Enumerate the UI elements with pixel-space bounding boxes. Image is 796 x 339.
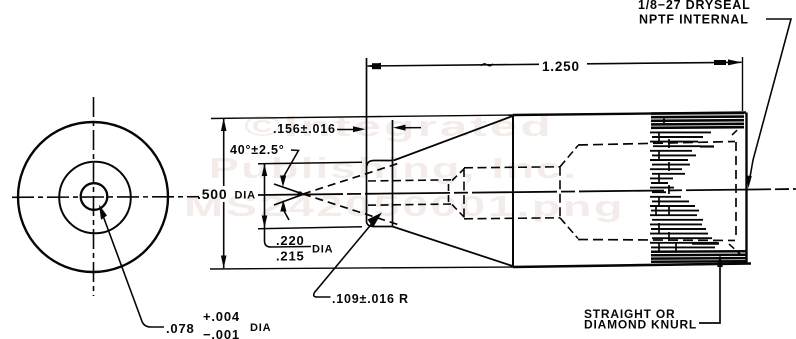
spray angle solid extension lower-left (274, 194, 304, 205)
.500 bottom arrow (221, 256, 227, 269)
.109 R leader (314, 221, 374, 297)
break squiggle (481, 64, 493, 66)
side view: right face (745, 113, 747, 265)
bore bottom hidden line (578, 240, 735, 241)
.220 bottom extension line (258, 227, 362, 229)
bore mouth chamfer top (732, 127, 741, 136)
cone bottom edge (393, 227, 515, 267)
svg-text:DIA: DIA (235, 190, 256, 202)
side view: bottom edge of body (513, 264, 751, 268)
knurl hatch band (650, 113, 746, 262)
chamber top hidden line (464, 167, 560, 168)
svg-text:−.001: −.001 (203, 327, 240, 339)
bore right end (735, 142, 737, 240)
svg-text:40°±2.5°: 40°±2.5° (230, 143, 285, 157)
cone top edge (394, 116, 515, 161)
side view: shoulder face of cylinder (512, 115, 514, 267)
NPTF arrowhead (746, 176, 752, 189)
nozzle tip top edge with corner radius (367, 161, 393, 167)
front view: middle circle (59, 162, 131, 234)
svg-text:1/8−27 DRYSEAL: 1/8−27 DRYSEAL (638, 0, 751, 12)
spray angle solid extension upper-left (274, 184, 304, 194)
40 deg arrow upper (points down) (280, 176, 286, 188)
.220 top extension line (258, 162, 362, 164)
watermark line 2 (209, 153, 578, 185)
svg-text:1.250: 1.250 (542, 59, 580, 74)
watermark line 3 (184, 191, 625, 223)
1.250 dimension line right part (587, 62, 742, 64)
1.250 left arrow (367, 63, 381, 69)
spray cone upper dashed ray (303, 164, 398, 195)
hidden orifice channel top (368, 180, 452, 181)
.500 DIA dimension line bottom segment (223, 202, 225, 268)
side view: top extension line (.500) (211, 115, 513, 119)
svg-text:DIA: DIA (250, 322, 271, 334)
front view: horizontal centerline (12, 196, 199, 199)
leader for .078 DIA orifice (102, 213, 164, 327)
svg-text:.215: .215 (276, 249, 305, 264)
knurl leader (699, 257, 720, 323)
1.250 right arrow (728, 59, 742, 65)
nozzle tip right face + .156 extension (392, 120, 394, 227)
.500 DIA dimension line top segment (223, 118, 225, 186)
chamfer to bore bottom (560, 218, 578, 239)
.156 right-pointing arrow at left ext line (353, 126, 366, 132)
vertex blob (298, 191, 303, 196)
1.250 dimension line left part (368, 64, 540, 66)
side view: top edge of body (513, 113, 746, 116)
svg-text:DIAMOND KNURL: DIAMOND KNURL (584, 318, 697, 332)
1.250 right extension line (742, 57, 744, 111)
watermark line 1 (244, 110, 554, 142)
40 deg arrow lower (points up) (280, 200, 286, 212)
chamber front face (463, 168, 465, 219)
chamber bottom hidden line (464, 218, 560, 219)
spray cone lower dashed ray (303, 194, 398, 225)
svg-text:.156±.016: .156±.016 (273, 122, 336, 136)
.156 left-pointing arrow at right ext line (393, 125, 406, 131)
svg-text:.078: .078 (166, 321, 195, 336)
.156 leader line (337, 129, 358, 131)
chamfer orifice to chamber bottom (452, 205, 464, 218)
svg-text:NPTF INTERNAL: NPTF INTERNAL (639, 13, 749, 27)
chamfer orifice to chamber top (452, 169, 464, 181)
.109 R arrowhead (368, 213, 383, 228)
knurl arrowhead (717, 254, 723, 267)
orifice end step (448, 184, 450, 203)
front view: inner circle (orifice) (81, 183, 108, 210)
side view: bottom extension line (.500) (210, 267, 513, 269)
svg-text:.500: .500 (197, 186, 227, 202)
nozzle tip left face + 1.250 extension line (367, 58, 393, 227)
front view: outer circle (18, 122, 168, 272)
.156 arrow tail (403, 127, 421, 129)
40 deg leader (284, 150, 299, 176)
front view: vertical centerline (93, 97, 95, 296)
40 deg leader tail (284, 210, 290, 220)
hidden orifice channel bottom (368, 204, 452, 205)
svg-text:DIA: DIA (312, 244, 333, 256)
NPTF leader (750, 19, 792, 180)
svg-text:+.004: +.004 (203, 309, 240, 324)
.500 top arrow (221, 118, 227, 131)
.220 bottom arrow (262, 216, 268, 229)
chamfer to bore top (560, 146, 578, 167)
bore top hidden line (578, 142, 735, 146)
thread bore shoulder (559, 167, 561, 218)
.220 dimension line with elbow to fraction bar (265, 164, 312, 247)
bore mouth chamfer bottom (729, 244, 740, 254)
.220 top arrow (262, 164, 268, 176)
svg-text:.109±.016 R: .109±.016 R (332, 292, 409, 306)
svg-text:.220: .220 (276, 233, 305, 248)
axis centerline (258, 189, 796, 195)
